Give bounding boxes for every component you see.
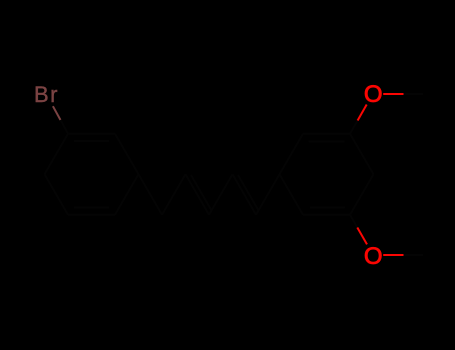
wire: left ring edge TR-R <box>115 134 139 175</box>
wire: right ring edge C1-C2 <box>280 134 304 175</box>
wire: left ring edge R-BR <box>115 174 139 215</box>
svg-text:Br: Br <box>34 82 59 107</box>
bromine substituent <box>53 106 68 134</box>
wire: O-CH3 bond carbon half <box>404 254 424 256</box>
wire: right ring edge C6-C1 <box>280 174 304 215</box>
wire: O-CH3 bond carbon half <box>404 93 424 95</box>
bottom methoxy group <box>350 215 423 255</box>
wire: chain double bond main line 1 <box>186 174 210 215</box>
wire: C3-O bond carbon half <box>350 121 358 134</box>
wire: left ring bottom edge BR-BL <box>68 214 115 216</box>
wire: chain double bond main line 2 <box>233 174 257 215</box>
wire: chain bond CH to right ring C1 <box>256 174 280 215</box>
wire: chain double bond second line 1 <box>191 175 212 210</box>
wire: left ring edge L-TL <box>45 134 69 175</box>
wire: right ring inner aromatic line bottom <box>310 206 345 208</box>
wire: O-CH3 bond oxygen half (red) <box>383 93 403 95</box>
top methoxy group <box>350 94 423 134</box>
left benzene ring <box>45 134 139 215</box>
svg-text:O: O <box>364 81 383 108</box>
wire: chain bond ring R to CH2 <box>139 174 163 215</box>
wire: right ring inner aromatic line top <box>309 140 345 142</box>
wire: right ring top edge C2-C3 <box>303 133 350 135</box>
wire: left ring edge BL-L <box>45 174 69 215</box>
wire: Br-C bond bromine half (dark red) <box>53 106 61 120</box>
svg-text:O: O <box>364 243 383 270</box>
wire: left ring inner aromatic line top <box>74 140 109 142</box>
wire: right ring edge C3-C4 <box>350 134 374 175</box>
wire: left ring inner aromatic line bottom <box>74 207 109 209</box>
wire: chain double bond second line 2 <box>238 175 259 210</box>
wire: C5-O bond oxygen half (red) <box>357 228 367 245</box>
wire: O-CH3 bond oxygen half (red) <box>383 254 403 256</box>
wire: C5-O bond carbon half <box>350 215 357 228</box>
pentadiene chain <box>139 174 280 215</box>
wire: right ring bottom edge C5-C6 <box>303 214 350 216</box>
wire: chain bond CH to CH <box>209 174 233 215</box>
wire: chain bond CH2 to CH <box>162 174 186 215</box>
wire: Br-C bond carbon half <box>61 120 69 134</box>
wire: left ring top edge TL-TR <box>68 133 115 135</box>
wire: C3-O bond oxygen half (red) <box>358 105 367 121</box>
right benzene ring <box>280 134 374 215</box>
wire: right ring edge C4-C5 <box>350 174 374 215</box>
